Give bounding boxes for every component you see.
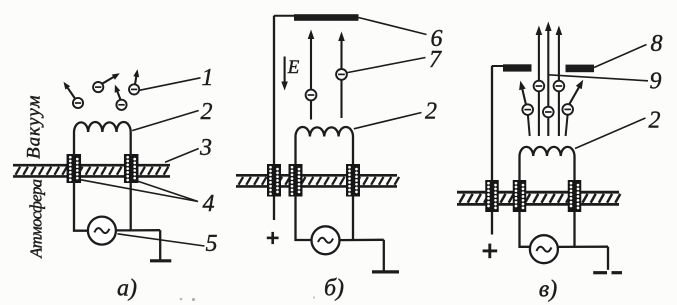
svg-text:Атмосфера: Атмосфера: [27, 179, 46, 259]
svg-text:2: 2: [201, 99, 213, 125]
svg-text:2: 2: [425, 99, 437, 125]
svg-text:Вакуум: Вакуум: [24, 94, 45, 159]
svg-text:5: 5: [206, 231, 218, 257]
svg-text:9: 9: [650, 68, 662, 94]
svg-text:б): б): [324, 276, 344, 302]
svg-text:8: 8: [651, 31, 663, 57]
svg-text:7: 7: [429, 47, 442, 73]
svg-text:1: 1: [202, 65, 214, 91]
svg-text:а): а): [117, 276, 137, 302]
svg-text:3: 3: [199, 135, 212, 161]
svg-text:4: 4: [203, 191, 215, 217]
svg-text:в): в): [539, 277, 557, 303]
svg-text:E: E: [287, 57, 300, 78]
svg-text:2: 2: [649, 108, 661, 134]
